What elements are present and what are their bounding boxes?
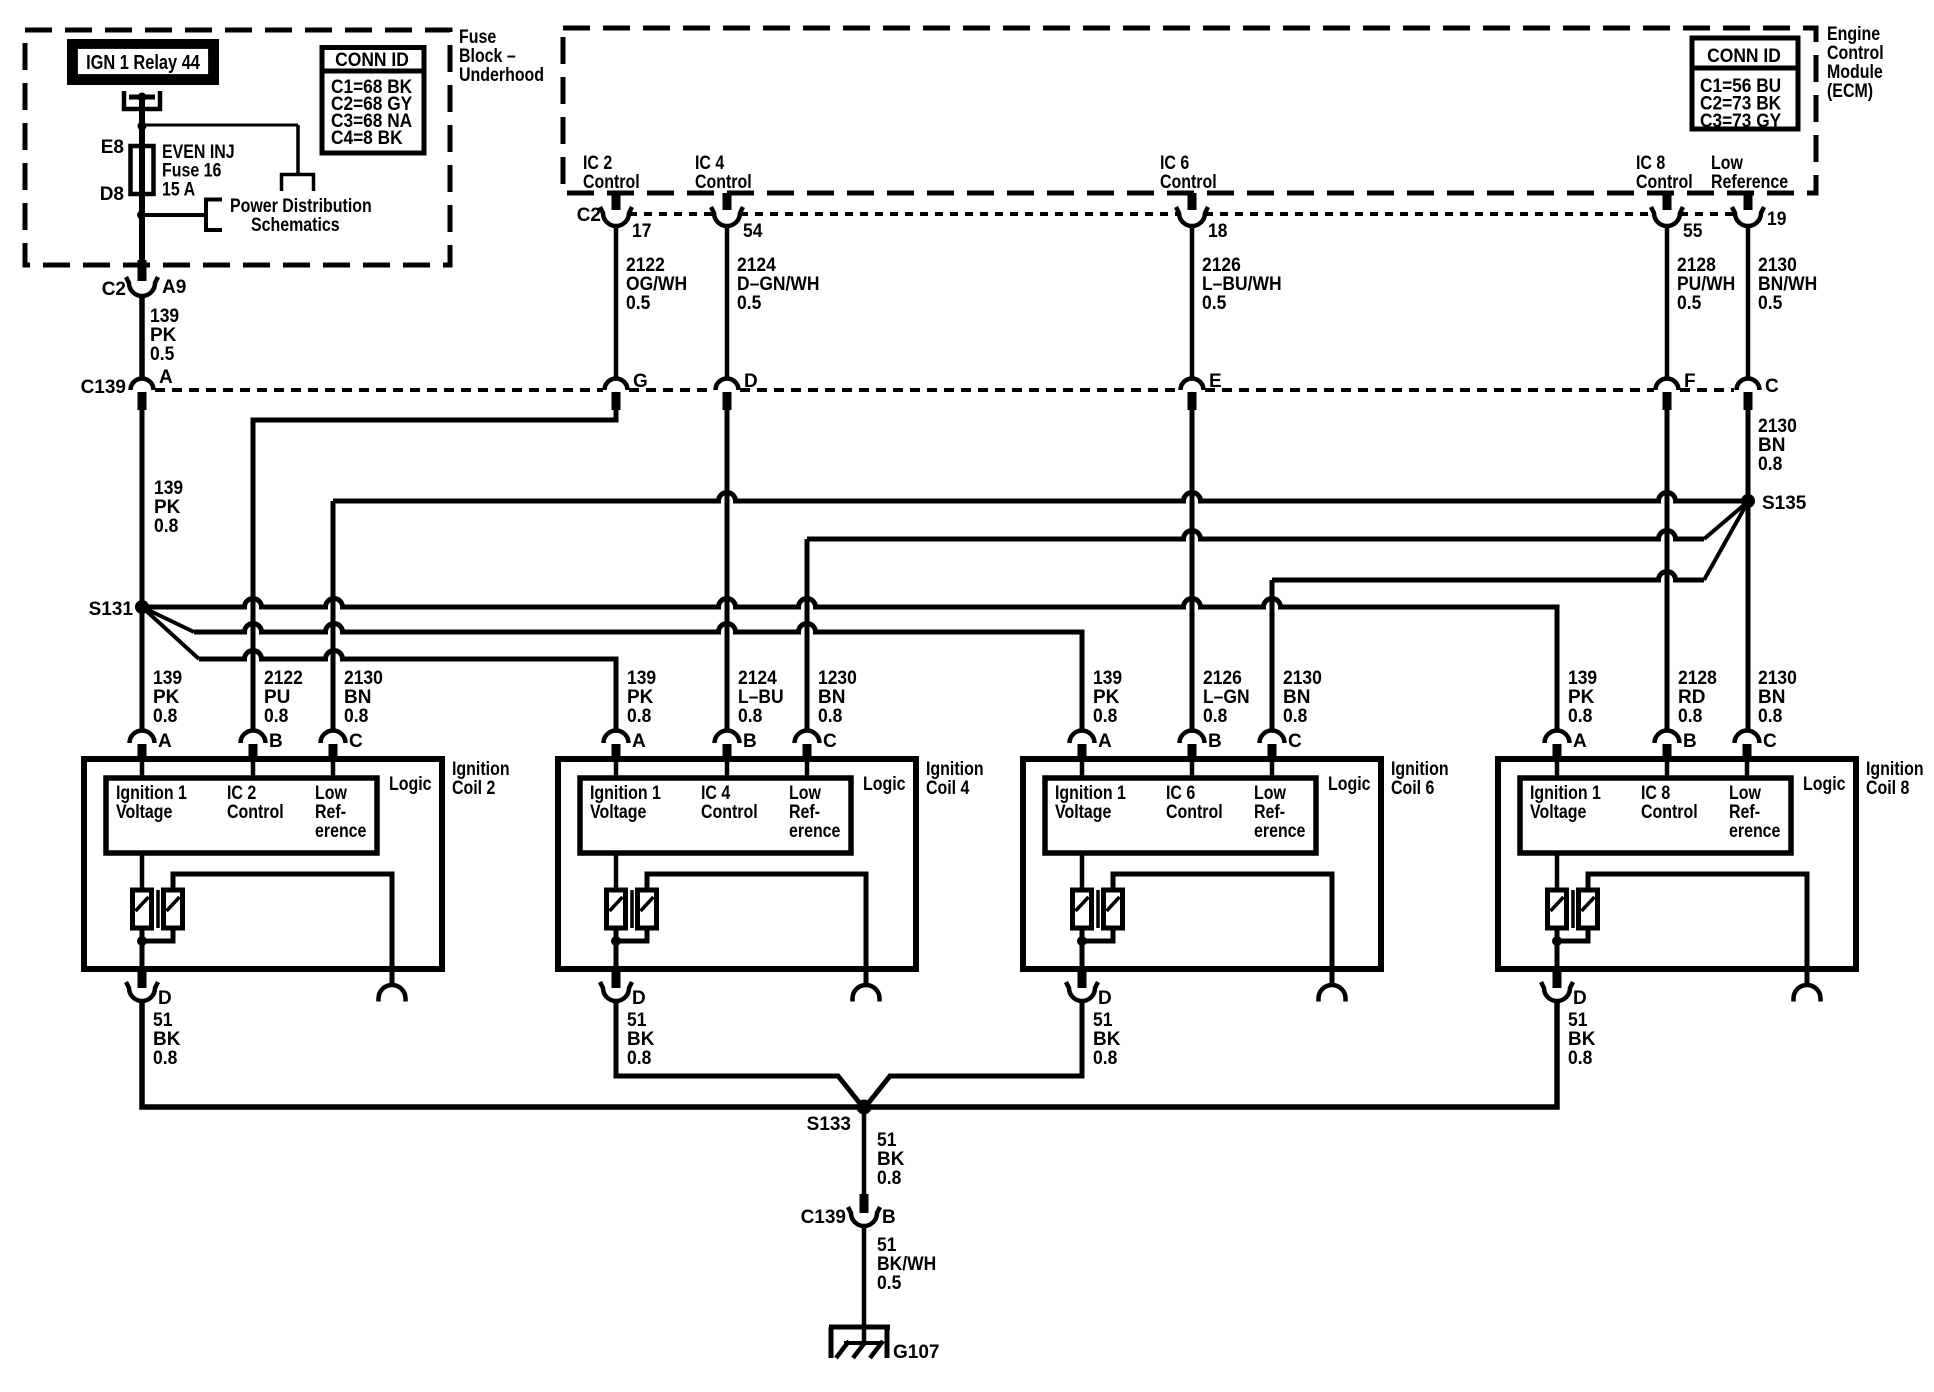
svg-text:0.8: 0.8 — [818, 704, 842, 726]
coil 8 secondary output wire — [1588, 874, 1807, 986]
svg-text:C139: C139 — [81, 377, 126, 398]
svg-text:C2: C2 — [577, 205, 601, 226]
svg-text:139: 139 — [153, 666, 182, 688]
svg-text:C: C — [1763, 731, 1777, 752]
svg-text:0.8: 0.8 — [1203, 704, 1227, 726]
junction to relay coil branch — [138, 122, 147, 131]
svg-text:0.8: 0.8 — [264, 704, 288, 726]
svg-text:51: 51 — [877, 1128, 896, 1150]
svg-text:D: D — [744, 371, 758, 392]
wire to power distribution schematics — [142, 213, 206, 217]
svg-text:CONN ID: CONN ID — [335, 48, 409, 70]
wire IC6 control from C139 E to coil 6 B — [1190, 408, 1195, 731]
coil 2 pin C connector — [321, 731, 346, 744]
coil 6 pin D connector — [1078, 966, 1087, 988]
wire from ECM pin 55 — [1665, 226, 1670, 379]
ignition coil 6 logic box — [1045, 778, 1316, 853]
connector C139 pin F — [1656, 379, 1679, 391]
wire 139 PK bus S131 to coil 8 A — [142, 599, 1557, 732]
svg-text:0.5: 0.5 — [1677, 291, 1701, 313]
connector C139 pin C — [1737, 379, 1760, 391]
svg-text:D: D — [1573, 988, 1587, 1009]
coil 8 spark output terminal — [1794, 985, 1821, 1001]
coil 4 pin B connector — [715, 731, 740, 744]
svg-text:C: C — [1288, 731, 1302, 752]
svg-text:G107: G107 — [893, 1342, 939, 1363]
svg-text:G: G — [633, 371, 648, 392]
svg-text:C4=8 BK: C4=8 BK — [331, 127, 403, 148]
conn id table ECM — [1692, 38, 1798, 129]
svg-text:0.8: 0.8 — [1283, 704, 1307, 726]
ground G107 — [829, 1325, 890, 1330]
svg-text:erence: erence — [1729, 820, 1781, 842]
svg-text:B: B — [269, 731, 283, 752]
svg-text:0.8: 0.8 — [1758, 704, 1782, 726]
svg-text:17: 17 — [632, 219, 651, 241]
wire IC8 control from C139 F to coil 8 B — [1665, 408, 1670, 731]
svg-text:C: C — [1765, 376, 1779, 397]
wire coil 8 pin B internal — [1665, 762, 1670, 778]
svg-text:0.8: 0.8 — [627, 1046, 651, 1068]
wire 139 PK 0.8 to S131 — [140, 410, 145, 731]
svg-text:Control: Control — [701, 801, 758, 823]
coil 4 core — [630, 890, 634, 928]
coil 6 pin A connector — [1070, 731, 1095, 744]
wire 139 PK S131 to coil 4 A — [142, 607, 199, 659]
coil 8 secondary winding — [1579, 890, 1598, 928]
ignition coil 2 box — [84, 759, 442, 969]
svg-text:Control: Control — [1636, 171, 1693, 193]
svg-text:B: B — [1208, 731, 1222, 752]
wire coil 2 pin A internal — [140, 762, 145, 778]
svg-text:Logic: Logic — [863, 773, 906, 795]
wire 51 BK/WH 0.5 — [862, 1227, 867, 1342]
svg-text:0.8: 0.8 — [627, 704, 651, 726]
ignition coil 2 logic box — [106, 778, 377, 853]
fuse block - underhood dashed box — [25, 30, 450, 265]
coil 2 secondary output wire — [173, 874, 392, 986]
coil 4 pin A connector — [604, 731, 629, 744]
svg-text:18: 18 — [1208, 219, 1227, 241]
wire low reference bus coil2 C to S135 — [331, 501, 336, 731]
engine control module dashed box — [563, 28, 1816, 193]
svg-text:D8: D8 — [100, 184, 124, 205]
ignition coil 8 logic box — [1520, 778, 1791, 853]
svg-text:139: 139 — [154, 476, 183, 498]
wire from ECM pin 18 — [1190, 226, 1195, 379]
svg-text:erence: erence — [1254, 820, 1306, 842]
svg-text:F: F — [1684, 371, 1696, 392]
svg-text:139: 139 — [627, 666, 656, 688]
svg-text:Logic: Logic — [1803, 773, 1846, 795]
svg-text:Coil 4: Coil 4 — [926, 777, 970, 799]
svg-text:Control: Control — [695, 171, 752, 193]
power distribution schematics bracket — [206, 200, 222, 231]
coil 6 primary winding wire — [1080, 853, 1085, 890]
junction power distribution tap — [137, 211, 146, 220]
relay coil connector fork — [282, 175, 314, 192]
coil 4 primary winding wire — [614, 853, 619, 890]
coil 6 winding junction — [1082, 928, 1113, 941]
svg-text:2130: 2130 — [344, 666, 383, 688]
coil 4 pin C connector — [795, 731, 820, 744]
splice S133 — [857, 1100, 872, 1115]
wire coil 4 pin A internal — [614, 762, 619, 778]
svg-text:0.5: 0.5 — [737, 291, 761, 313]
svg-text:Coil 2: Coil 2 — [452, 777, 496, 799]
svg-text:Control: Control — [227, 801, 284, 823]
ignition coil 6 box — [1023, 759, 1381, 969]
wire coil 4 pin C internal — [805, 762, 810, 778]
coil 6 secondary winding — [1104, 890, 1123, 928]
ignition coil 8 box — [1498, 759, 1856, 969]
svg-text:54: 54 — [743, 219, 763, 241]
ECM pin 18 connector — [1188, 193, 1197, 210]
fuse EVEN INJ Fuse 16 15 A — [131, 146, 154, 194]
wire coil2 D and coil8 D to S133 — [142, 1002, 1557, 1107]
svg-text:19: 19 — [1767, 207, 1786, 229]
svg-text:Reference: Reference — [1711, 171, 1788, 193]
coil 8 primary winding wire — [1555, 853, 1560, 890]
svg-text:S133: S133 — [807, 1114, 851, 1135]
wire from ECM pin 17 — [614, 226, 619, 379]
wire relay to fuse E8 — [139, 95, 145, 264]
wire low reference coil6 C to S135 — [1270, 580, 1275, 731]
connector C139 dashed line — [155, 388, 603, 392]
connector C139 pin D — [716, 379, 739, 391]
svg-text:0.5: 0.5 — [626, 291, 650, 313]
svg-text:Control: Control — [1641, 801, 1698, 823]
svg-text:D: D — [158, 988, 172, 1009]
svg-text:Control: Control — [1166, 801, 1223, 823]
coil 6 primary winding — [1073, 890, 1092, 928]
coil 2 spark output terminal — [379, 985, 406, 1001]
wire branch to relay coil — [142, 124, 298, 127]
coil 4 winding junction — [616, 928, 647, 941]
svg-text:2122: 2122 — [264, 666, 303, 688]
svg-text:D: D — [632, 988, 646, 1009]
wire coil 6 pin B internal — [1190, 762, 1195, 778]
svg-text:51: 51 — [1093, 1008, 1112, 1030]
coil 2 primary winding wire — [140, 853, 145, 890]
wire 139 PK S131 to coil 6 A — [142, 607, 194, 632]
svg-text:139: 139 — [1093, 666, 1122, 688]
coil 8 pin A connector — [1545, 731, 1570, 744]
svg-text:Control: Control — [583, 171, 640, 193]
ECM pin 17 connector — [612, 193, 621, 210]
svg-text:Coil 8: Coil 8 — [1866, 777, 1910, 799]
coil 2 primary winding — [133, 890, 152, 928]
svg-text:15 A: 15 A — [162, 178, 195, 200]
wire coil 2 pin B internal — [251, 762, 256, 778]
svg-text:0.8: 0.8 — [1093, 704, 1117, 726]
coil 4 spark output terminal — [853, 985, 880, 1001]
svg-text:D: D — [1098, 988, 1112, 1009]
ECM pin 54 connector — [723, 193, 732, 210]
svg-text:A: A — [1573, 731, 1587, 752]
svg-text:0.5: 0.5 — [1202, 291, 1226, 313]
wire coil6 D to S133 — [866, 1002, 1082, 1106]
wire coil 2 pin C internal — [331, 762, 336, 778]
connector C2 pin A9 — [138, 260, 147, 281]
svg-text:2130: 2130 — [1758, 666, 1797, 688]
svg-text:Voltage: Voltage — [1530, 801, 1587, 823]
svg-text:0.8: 0.8 — [1093, 1046, 1117, 1068]
svg-text:A: A — [158, 731, 172, 752]
coil 8 winding junction — [1557, 928, 1588, 941]
svg-text:Voltage: Voltage — [1055, 801, 1112, 823]
coil 8 pin B connector — [1655, 731, 1680, 744]
coil 6 core — [1096, 890, 1100, 928]
coil 8 primary winding — [1548, 890, 1567, 928]
svg-text:1230: 1230 — [818, 666, 857, 688]
coil 2 secondary winding — [164, 890, 183, 928]
svg-text:erence: erence — [315, 820, 367, 842]
svg-text:0.8: 0.8 — [877, 1166, 901, 1188]
svg-text:0.8: 0.8 — [1568, 704, 1592, 726]
svg-text:0.5: 0.5 — [150, 342, 174, 364]
ECM pin 55 connector — [1663, 193, 1672, 210]
relay IGN 1 Relay 44 — [72, 44, 215, 81]
svg-text:A9: A9 — [162, 277, 186, 298]
coil 8 core — [1571, 890, 1575, 928]
svg-text:0.8: 0.8 — [1758, 452, 1782, 474]
wire low reference coil4 C to S135 — [805, 539, 810, 731]
wire from ECM pin 54 — [725, 226, 730, 379]
ignition coil 4 box — [558, 759, 916, 969]
svg-text:2130: 2130 — [1758, 414, 1797, 436]
svg-text:B: B — [1683, 731, 1697, 752]
coil 6 spark output terminal — [1319, 985, 1346, 1001]
ECM pin 19 connector — [1744, 193, 1753, 210]
wire coil 6 pin A internal — [1080, 762, 1085, 778]
connector C139 pin B — [860, 1194, 869, 1213]
coil 2 pin D connector — [138, 966, 147, 988]
svg-text:139: 139 — [1568, 666, 1597, 688]
coil 8 pin D connector — [1553, 966, 1562, 988]
wire IC4 control from C139 D to coil 4 B — [725, 408, 730, 731]
wire coil 4 pin B internal — [725, 762, 730, 778]
coil 6 pin B connector — [1180, 731, 1205, 744]
svg-text:A: A — [1098, 731, 1112, 752]
connector C139 pin A — [131, 379, 154, 391]
ECM connector C2 dotted line — [629, 212, 714, 216]
svg-text:E: E — [1209, 371, 1222, 392]
wire from ECM pin 19 — [1746, 226, 1751, 379]
svg-text:Control: Control — [1160, 171, 1217, 193]
svg-text:0.8: 0.8 — [153, 1046, 177, 1068]
wire 51 BK 0.8 below S133 — [862, 1107, 867, 1196]
svg-text:51: 51 — [1568, 1008, 1587, 1030]
ignition coil 4 logic box — [580, 778, 851, 853]
svg-text:B: B — [882, 1207, 896, 1228]
coil 2 pin A connector — [130, 731, 155, 744]
svg-text:erence: erence — [789, 820, 841, 842]
wire coil 6 pin C internal — [1270, 762, 1275, 778]
coil 4 secondary winding — [638, 890, 657, 928]
svg-text:55: 55 — [1683, 219, 1702, 241]
svg-text:51: 51 — [153, 1008, 172, 1030]
wire coil 8 pin A internal — [1555, 762, 1560, 778]
splice S135 — [1741, 494, 1755, 508]
svg-text:Voltage: Voltage — [590, 801, 647, 823]
svg-text:C: C — [823, 731, 837, 752]
svg-text:C139: C139 — [801, 1207, 846, 1228]
conn id table fuse block — [322, 48, 424, 154]
svg-text:0.8: 0.8 — [738, 704, 762, 726]
coil 6 pin C connector — [1260, 731, 1285, 744]
svg-text:0.8: 0.8 — [153, 704, 177, 726]
svg-text:B: B — [743, 731, 757, 752]
svg-text:0.5: 0.5 — [877, 1271, 901, 1293]
svg-text:Voltage: Voltage — [116, 801, 173, 823]
wire 139 PK 0.5 — [139, 297, 145, 380]
connector C139 pin E — [1181, 379, 1204, 391]
svg-text:0.8: 0.8 — [1568, 1046, 1592, 1068]
svg-text:0.8: 0.8 — [154, 514, 178, 536]
svg-text:51: 51 — [627, 1008, 646, 1030]
splice S131 — [135, 600, 149, 614]
svg-text:Underhood: Underhood — [459, 64, 544, 86]
wire coil 8 pin C internal — [1745, 762, 1750, 778]
svg-text:0.5: 0.5 — [1758, 291, 1782, 313]
svg-text:A: A — [632, 731, 646, 752]
svg-text:A: A — [159, 367, 173, 388]
svg-text:E8: E8 — [101, 137, 124, 158]
connector C139 pin G — [605, 379, 628, 391]
coil 8 pin C connector — [1735, 731, 1760, 744]
svg-text:Logic: Logic — [1328, 773, 1371, 795]
svg-text:(ECM): (ECM) — [1827, 80, 1873, 102]
coil 4 primary winding — [607, 890, 626, 928]
wire coil4 D to S133 — [616, 1002, 862, 1106]
svg-text:IGN 1 Relay 44: IGN 1 Relay 44 — [86, 50, 200, 73]
coil 4 secondary output wire — [647, 874, 866, 986]
coil 6 secondary output wire — [1113, 874, 1332, 986]
coil 2 pin B connector — [241, 731, 266, 744]
svg-text:2128: 2128 — [1678, 666, 1717, 688]
svg-text:0.8: 0.8 — [344, 704, 368, 726]
wire 2130 BN 0.8 from C139 C — [1746, 408, 1751, 731]
svg-text:2130: 2130 — [1283, 666, 1322, 688]
svg-text:0.8: 0.8 — [1678, 704, 1702, 726]
coil 4 pin D connector — [612, 966, 621, 988]
svg-text:C: C — [349, 731, 363, 752]
svg-text:S135: S135 — [1762, 493, 1807, 514]
svg-text:CONN ID: CONN ID — [1707, 44, 1781, 66]
svg-text:S131: S131 — [89, 599, 134, 620]
relay contact terminal — [124, 91, 160, 109]
svg-text:Logic: Logic — [389, 773, 432, 795]
coil 2 core — [156, 890, 160, 928]
svg-text:139: 139 — [150, 304, 179, 326]
svg-text:Coil 6: Coil 6 — [1391, 777, 1435, 799]
coil 2 winding junction — [142, 928, 173, 941]
svg-text:C3=73 GY: C3=73 GY — [1700, 110, 1781, 131]
svg-text:C2: C2 — [102, 279, 126, 300]
wire IC2 control from C139 G to coil 2 B — [253, 408, 616, 731]
svg-text:Schematics: Schematics — [251, 214, 340, 236]
